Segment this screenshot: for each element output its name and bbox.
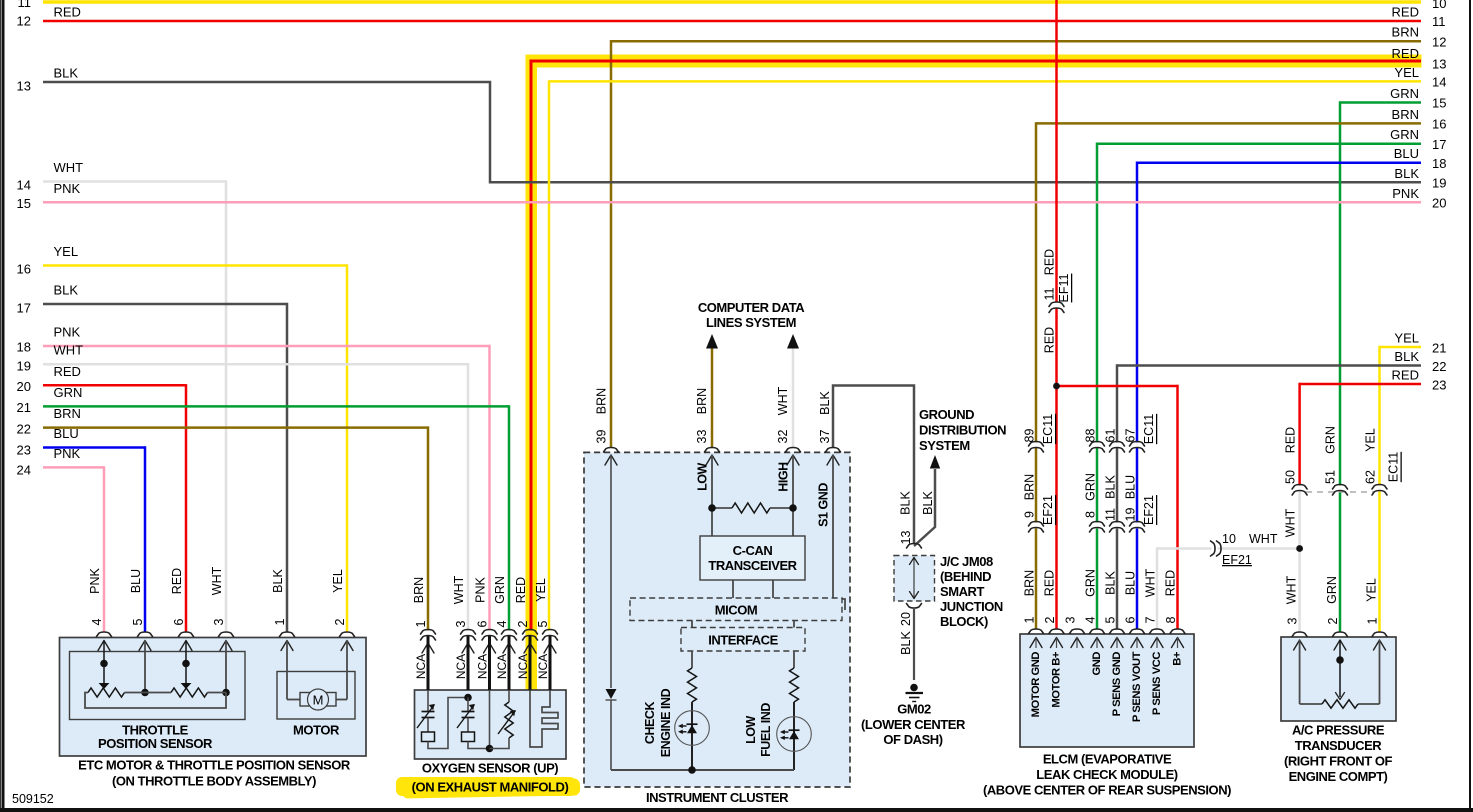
wire 16 BRN from right edge to ELCM pin 1 xyxy=(1036,107,1446,630)
wire WHT from ELCM pin 7 to A/C pin 3 node xyxy=(1157,547,1300,629)
svg-text:5: 5 xyxy=(1104,616,1118,623)
svg-text:NCA: NCA xyxy=(536,654,550,679)
svg-text:BRN: BRN xyxy=(1023,570,1037,596)
svg-text:PNK: PNK xyxy=(1392,186,1419,201)
throttle box pin 4 (PNK) connector xyxy=(88,567,112,650)
svg-text:16: 16 xyxy=(1432,117,1446,132)
svg-text:PNK: PNK xyxy=(54,325,81,340)
junction dot WHT net xyxy=(1296,545,1303,552)
svg-text:GND: GND xyxy=(1091,652,1103,676)
svg-text:LOW: LOW xyxy=(744,715,758,743)
svg-text:67: 67 xyxy=(1124,429,1138,443)
svg-text:22: 22 xyxy=(17,422,31,437)
A/C connector row EC11 (pins 50,51,62) xyxy=(1284,426,1401,495)
check engine indicator branch: resistor xyxy=(688,651,697,770)
label LOW FUEL IND xyxy=(744,703,773,757)
svg-text:61: 61 xyxy=(1104,429,1118,443)
wire 22 BLK from right edge to ELCM pin 5 xyxy=(1117,349,1446,630)
svg-text:RED: RED xyxy=(54,364,81,379)
wire: cluster CAN HIGH line pin 32 xyxy=(777,455,794,536)
svg-text:1: 1 xyxy=(414,620,428,627)
svg-text:GRN: GRN xyxy=(1390,127,1419,142)
svg-text:6: 6 xyxy=(476,620,490,627)
label THROTTLE POSITION SENSOR xyxy=(98,723,213,752)
svg-text:BLU: BLU xyxy=(1124,475,1138,499)
throttle box pin 2 (YEL) connector xyxy=(331,569,355,650)
svg-text:OXYGEN SENSOR (UP): OXYGEN SENSOR (UP) xyxy=(422,761,558,776)
low fuel indicator LED xyxy=(777,717,812,752)
page border right xyxy=(1469,0,1471,812)
svg-text:88: 88 xyxy=(1084,429,1098,443)
svg-text:ENGINE IND: ENGINE IND xyxy=(659,688,673,757)
svg-text:BLK: BLK xyxy=(921,491,935,515)
svg-text:BLK: BLK xyxy=(1394,349,1419,364)
wire 17 GRN from right edge to ELCM pin 4 xyxy=(1097,127,1446,629)
svg-text:EC11: EC11 xyxy=(1142,414,1156,444)
svg-text:EF11: EF11 xyxy=(1057,273,1071,302)
wire RED vertical x=1056 (ELCM MOTOR B+ net, from top of page) xyxy=(1057,0,1178,630)
svg-text:WHT: WHT xyxy=(1285,575,1299,604)
svg-text:BLK: BLK xyxy=(1104,571,1118,595)
svg-text:24: 24 xyxy=(17,463,31,478)
motor wires xyxy=(287,641,347,700)
cluster pin 39 connector xyxy=(604,448,619,466)
throttle position sensor inner box xyxy=(70,652,246,720)
svg-text:RED: RED xyxy=(1164,570,1178,596)
svg-text:2: 2 xyxy=(1043,616,1057,623)
svg-text:LOW: LOW xyxy=(696,462,710,490)
svg-text:BLK: BLK xyxy=(1394,166,1419,181)
svg-text:4: 4 xyxy=(1084,616,1098,623)
svg-text:15: 15 xyxy=(17,196,31,211)
svg-text:23: 23 xyxy=(17,443,31,458)
TPS wiper 2 (pin 6) xyxy=(181,641,192,690)
ELCM mid wire labels BRN GRN BLK BLU xyxy=(1023,473,1138,501)
svg-text:ETC MOTOR & THROTTLE POSITION: ETC MOTOR & THROTTLE POSITION SENSOR xyxy=(78,758,351,773)
label OXYGEN SENSOR (UP) (ON EXHAUST MANIFOLD) xyxy=(412,761,569,795)
wire BLK branch to ground distribution system arrow xyxy=(899,455,941,546)
svg-text:TRANSDUCER: TRANSDUCER xyxy=(1295,738,1383,753)
svg-text:GROUND: GROUND xyxy=(919,407,974,422)
svg-text:3: 3 xyxy=(212,618,226,625)
svg-text:RED: RED xyxy=(1392,368,1419,383)
svg-text:LEAK CHECK MODULE): LEAK CHECK MODULE) xyxy=(1036,767,1178,782)
svg-text:EC11: EC11 xyxy=(1387,452,1401,482)
svg-text:LINES SYSTEM: LINES SYSTEM xyxy=(706,315,796,330)
wire 13/19 BLK: left 13, over and down to right 19 xyxy=(17,66,1447,191)
svg-text:DISTRIBUTION: DISTRIBUTION xyxy=(919,423,1006,438)
oxygen sensor pin 5 (YEL) inline connector + NCA lead xyxy=(534,578,558,690)
svg-text:RED: RED xyxy=(1392,5,1419,20)
svg-text:51: 51 xyxy=(1324,470,1338,484)
svg-text:BRN: BRN xyxy=(1392,25,1419,40)
svg-text:YEL: YEL xyxy=(534,578,548,602)
svg-text:WHT: WHT xyxy=(210,566,224,595)
connector EF11 pin 11 on RED wire xyxy=(1043,249,1072,353)
svg-text:BLU: BLU xyxy=(54,426,79,441)
svg-text:GRN: GRN xyxy=(1084,569,1098,597)
svg-text:J/C JM08: J/C JM08 xyxy=(940,554,993,569)
svg-text:8: 8 xyxy=(1164,616,1178,623)
oxygen heater element (pins 2,5) xyxy=(530,690,558,747)
svg-text:14: 14 xyxy=(17,178,31,193)
svg-text:2: 2 xyxy=(1326,617,1340,624)
wires MICOM to INTERFACE xyxy=(692,621,794,628)
svg-text:S1 GND: S1 GND xyxy=(817,483,831,527)
TPS pin 3 wire xyxy=(222,641,230,697)
motor sub-box xyxy=(277,672,355,720)
svg-text:13: 13 xyxy=(17,79,31,94)
svg-text:YEL: YEL xyxy=(1394,65,1419,80)
oxygen pin 6 internal wire xyxy=(486,690,494,752)
svg-text:WHT: WHT xyxy=(776,386,790,415)
ground GM02 symbol xyxy=(906,684,924,702)
svg-text:1: 1 xyxy=(1023,616,1037,623)
svg-text:17: 17 xyxy=(1432,137,1446,152)
wire 14 YEL from right edge to oxygen sensor pin 5 xyxy=(549,65,1446,631)
svg-text:19: 19 xyxy=(1432,176,1446,191)
label CHECK ENGINE IND xyxy=(643,688,673,757)
instrument cluster dashed box xyxy=(584,452,850,787)
svg-text:POSITION SENSOR: POSITION SENSOR xyxy=(98,736,213,751)
svg-text:7: 7 xyxy=(1144,616,1158,623)
A/C pin 3 connector xyxy=(1285,575,1308,650)
TPS resistor 1 xyxy=(88,688,125,697)
svg-text:RED: RED xyxy=(1043,249,1057,275)
svg-text:GRN: GRN xyxy=(1325,576,1339,604)
connector EF21 pin 10 on WHT wire xyxy=(1211,532,1278,567)
svg-text:GM02: GM02 xyxy=(897,702,931,717)
svg-text:5: 5 xyxy=(536,620,550,627)
wire 15/20 PNK horizontal xyxy=(17,181,1447,211)
ETC motor & throttle position sensor outer box xyxy=(60,638,367,757)
TPS interconnect wires xyxy=(85,693,226,709)
svg-text:BLK: BLK xyxy=(818,391,832,415)
svg-text:P SENS VOUT: P SENS VOUT xyxy=(1131,651,1143,722)
label ELCM (EVAPORATIVE LEAK CHECK MODULE) (ABOVE CENTER OF REAR SUSPENSION) xyxy=(983,752,1231,798)
ELCM pin 8 connector xyxy=(1164,616,1185,665)
label: COMPUTER DATA LINES SYSTEM xyxy=(698,300,805,330)
svg-text:ENGINE COMPT): ENGINE COMPT) xyxy=(1289,769,1388,784)
wire 13 RED (highlighted) from right edge to oxygen sensor pin 2 xyxy=(531,46,1446,631)
wire 16 YEL from left edge down to throttle sensor pin 2 xyxy=(17,244,347,632)
svg-text:BLK: BLK xyxy=(899,631,913,655)
wire: S1 GND internal line pin 37 xyxy=(817,455,846,610)
svg-text:RED: RED xyxy=(514,577,528,603)
svg-text:YEL: YEL xyxy=(1364,428,1378,452)
svg-text:YEL: YEL xyxy=(1394,331,1419,346)
INTERFACE dashed box xyxy=(681,628,805,652)
J/C JM08 pin 20 connector xyxy=(899,604,922,655)
label A/C PRESSURE TRANSDUCER (RIGHT FRONT OF ENGINE COMPT) xyxy=(1284,723,1393,785)
A/C pin 2 connector xyxy=(1325,576,1348,650)
junction dot RED net at ELCM xyxy=(1053,383,1060,390)
svg-text:MOTOR: MOTOR xyxy=(293,723,340,738)
svg-text:13: 13 xyxy=(1432,57,1446,72)
ELCM pin 3 connector xyxy=(1064,616,1085,648)
TPS pin 5 wire to center tap xyxy=(141,641,149,697)
svg-text:BRN: BRN xyxy=(695,388,709,414)
J/C JM08 dashed box xyxy=(894,556,935,602)
svg-text:M: M xyxy=(313,693,324,708)
svg-text:BRN: BRN xyxy=(54,406,81,421)
junction dots on CAN lines xyxy=(708,504,797,512)
svg-text:4: 4 xyxy=(495,620,509,627)
svg-text:EF21: EF21 xyxy=(1142,495,1156,525)
label: GROUND DISTRIBUTION SYSTEM xyxy=(919,407,1006,453)
svg-text:YEL: YEL xyxy=(54,244,79,259)
ELCM pin 1 connector xyxy=(1023,616,1044,717)
svg-text:P SENS VCC: P SENS VCC xyxy=(1151,652,1163,715)
svg-text:10: 10 xyxy=(1432,0,1446,11)
svg-text:PNK: PNK xyxy=(474,576,488,602)
wire 18 PNK from left edge down to oxygen sensor pin 6 xyxy=(17,325,490,631)
J/C JM08 internal double-arrow wire xyxy=(910,557,919,599)
svg-text:(ON EXHAUST MANIFOLD): (ON EXHAUST MANIFOLD) xyxy=(412,780,569,795)
throttle box pin 1 (BLK) connector xyxy=(271,569,295,651)
svg-text:GRN: GRN xyxy=(1390,86,1419,101)
svg-text:YEL: YEL xyxy=(331,569,345,593)
svg-text:GRN: GRN xyxy=(1084,473,1098,501)
oxygen sensor pin 4 (GRN) inline connector + NCA lead xyxy=(493,576,517,690)
svg-text:21: 21 xyxy=(1432,341,1446,356)
svg-text:33: 33 xyxy=(695,430,709,444)
svg-text:EF21: EF21 xyxy=(1041,495,1055,525)
svg-text:16: 16 xyxy=(17,262,31,277)
svg-text:BLK: BLK xyxy=(1104,475,1118,499)
svg-text:22: 22 xyxy=(1432,359,1446,374)
wire BRN cluster pin 33 up to computer data lines arrow xyxy=(695,334,718,448)
svg-text:18: 18 xyxy=(17,340,31,355)
wire 12 BRN from right edge to instrument cluster pin 39 xyxy=(595,25,1447,448)
oxygen sensor pin 2 (RED) inline connector + NCA lead xyxy=(514,577,538,690)
svg-text:GRN: GRN xyxy=(493,576,507,604)
oxygen element 3 (pin 4 variable resistor) xyxy=(490,690,516,749)
svg-text:9: 9 xyxy=(1023,511,1037,518)
wire 23 BLU from left edge down to throttle sensor pin 5 xyxy=(17,426,145,632)
svg-text:BLU: BLU xyxy=(129,569,143,593)
svg-text:(ABOVE CENTER OF REAR SUSPENSI: (ABOVE CENTER OF REAR SUSPENSION) xyxy=(983,783,1231,798)
svg-text:RED: RED xyxy=(1043,327,1057,353)
J/C JM08 pin 13 connector xyxy=(899,531,922,548)
wire 14 WHT from left edge down to throttle sensor pin 3 xyxy=(17,160,226,632)
svg-text:RED: RED xyxy=(1392,46,1419,61)
label ETC MOTOR & THROTTLE POSITION SENSOR (ON THROTTLE BODY ASSEMBLY) xyxy=(78,758,351,789)
svg-text:3: 3 xyxy=(454,620,468,627)
svg-text:RED: RED xyxy=(54,5,81,20)
ELCM pin 7 connector xyxy=(1144,616,1165,715)
svg-text:19: 19 xyxy=(1124,508,1138,522)
junction dot on bus xyxy=(688,766,696,774)
svg-text:WHT: WHT xyxy=(54,343,84,358)
ELCM connector row EF21 (pins 9,8,11,19) xyxy=(1023,495,1157,532)
svg-text:CHECK: CHECK xyxy=(643,701,657,744)
wire 15 GRN from right edge to A/C pressure transducer pin 2 xyxy=(1340,86,1446,632)
svg-text:12: 12 xyxy=(17,14,31,29)
svg-text:(LOWER CENTER: (LOWER CENTER xyxy=(861,717,966,732)
A/C pressure transducer box xyxy=(1281,637,1396,721)
svg-text:89: 89 xyxy=(1023,429,1037,443)
svg-text:32: 32 xyxy=(776,430,790,444)
svg-text:JUNCTION: JUNCTION xyxy=(940,599,1003,614)
svg-text:BLK: BLK xyxy=(899,491,913,515)
svg-text:SMART: SMART xyxy=(940,584,984,599)
svg-text:(RIGHT FRONT OF: (RIGHT FRONT OF xyxy=(1284,754,1393,769)
svg-text:NCA: NCA xyxy=(414,654,428,679)
svg-text:EF21: EF21 xyxy=(1222,553,1252,567)
label: J/C JM08 (BEHIND SMART JUNCTION BLOCK) xyxy=(940,554,1003,629)
svg-text:RED: RED xyxy=(1043,570,1057,596)
svg-text:WHT: WHT xyxy=(1284,508,1298,537)
svg-text:1: 1 xyxy=(1366,617,1380,624)
svg-text:6: 6 xyxy=(1124,616,1138,623)
svg-text:NCA: NCA xyxy=(516,654,530,679)
wire 11/10 YEL (top horizontal) xyxy=(18,0,1447,11)
svg-text:8: 8 xyxy=(1084,511,1098,518)
svg-text:MOTOR GND: MOTOR GND xyxy=(1030,652,1042,718)
svg-text:COMPUTER DATA: COMPUTER DATA xyxy=(698,300,805,315)
throttle box pin 5 (BLU) connector xyxy=(129,569,153,651)
svg-text:YEL: YEL xyxy=(1365,578,1379,602)
svg-text:3: 3 xyxy=(1064,616,1078,623)
A/C pin 1 connector xyxy=(1365,578,1388,650)
wire 20 RED from left edge down to throttle sensor pin 6 xyxy=(17,364,186,632)
svg-text:10: 10 xyxy=(1222,532,1236,546)
page border bottom xyxy=(0,808,1473,812)
label: GM02 (LOWER CENTER OF DASH) xyxy=(861,702,966,748)
wire 23 RED from right edge to A/C connector 50, WHT below to pin 3 xyxy=(1300,368,1447,633)
cluster bottom bus wire xyxy=(611,769,794,771)
wire 17 BLK from left edge down to throttle sensor pin 1 xyxy=(17,283,287,632)
ELCM pin 4 connector xyxy=(1084,616,1105,675)
wire BLK 37: cluster pin 37 up, over to J/C JM08 pin 13 xyxy=(818,386,914,544)
wire 19 WHT from left edge down to oxygen sensor pin 3 xyxy=(17,343,468,631)
wire: cluster CAN LOW line pin 33 xyxy=(696,455,713,536)
svg-text:17: 17 xyxy=(17,301,31,316)
wire 21 YEL from right edge to A/C pressure transducer pin 1 xyxy=(1380,331,1447,633)
svg-text:NCA: NCA xyxy=(495,654,509,679)
svg-text:EC11: EC11 xyxy=(1041,414,1055,444)
svg-text:PNK: PNK xyxy=(54,181,81,196)
svg-text:37: 37 xyxy=(818,430,832,444)
svg-text:(BEHIND: (BEHIND xyxy=(940,569,991,584)
svg-text:SYSTEM: SYSTEM xyxy=(919,438,970,453)
motor M symbol xyxy=(300,689,336,710)
oxygen sensor pin 6 (PNK) inline connector + NCA lead xyxy=(474,576,498,690)
svg-text:11: 11 xyxy=(1104,508,1118,521)
wires C-CAN to MICOM xyxy=(733,580,773,598)
cluster pin 37 connector xyxy=(826,448,841,466)
TPS resistor 2 xyxy=(171,688,207,697)
page border left xyxy=(2,0,5,808)
svg-text:C-CAN: C-CAN xyxy=(733,543,773,558)
svg-text:BLK: BLK xyxy=(54,66,79,81)
svg-text:20: 20 xyxy=(1432,196,1446,211)
svg-text:BLK: BLK xyxy=(271,569,285,593)
svg-text:BRN: BRN xyxy=(595,388,609,414)
svg-text:BLU: BLU xyxy=(1124,571,1138,595)
svg-text:BRN: BRN xyxy=(1392,107,1419,122)
svg-text:NCA: NCA xyxy=(454,654,468,679)
oxygen element 1 (pin 1 variable sensor cell) xyxy=(417,690,468,749)
TPS wiper 1 (pin 4) xyxy=(99,641,110,690)
svg-text:GRN: GRN xyxy=(1324,426,1338,454)
svg-text:12: 12 xyxy=(1432,35,1446,50)
svg-text:TRANSCEIVER: TRANSCEIVER xyxy=(708,558,797,573)
svg-text:B+: B+ xyxy=(1172,651,1184,666)
svg-text:PNK: PNK xyxy=(54,446,81,461)
throttle box pin 6 (RED) connector xyxy=(170,568,194,651)
svg-text:BRN: BRN xyxy=(412,577,426,603)
check engine indicator LED xyxy=(675,711,710,746)
svg-text:NCA: NCA xyxy=(476,654,490,679)
svg-text:4: 4 xyxy=(90,618,104,625)
svg-text:HIGH: HIGH xyxy=(777,462,791,492)
resistor between CAN LOW and HIGH xyxy=(712,503,793,513)
svg-text:BLU: BLU xyxy=(1394,146,1419,161)
svg-text:2: 2 xyxy=(516,620,530,627)
wire 22 BRN from left edge down to oxygen sensor pin 1 xyxy=(17,406,428,630)
svg-text:39: 39 xyxy=(595,430,609,444)
svg-text:A/C PRESSURE: A/C PRESSURE xyxy=(1292,723,1385,738)
svg-text:11: 11 xyxy=(1432,14,1446,29)
svg-text:2: 2 xyxy=(333,618,347,625)
wire BLK 20 from J/C JM08 to ground GM02 xyxy=(913,608,915,680)
highlight marker under (ON EXHAUST MANIFOLD) caption xyxy=(396,777,580,799)
svg-text:PNK: PNK xyxy=(88,567,102,593)
svg-text:13: 13 xyxy=(899,531,913,545)
oxygen sensor box xyxy=(415,690,567,759)
svg-text:MOTOR B+: MOTOR B+ xyxy=(1051,651,1063,707)
ELCM lower wire labels xyxy=(1023,568,1178,597)
svg-text:MICOM: MICOM xyxy=(715,603,758,618)
svg-text:RED: RED xyxy=(1284,427,1298,453)
wire 18 BLU from right edge to ELCM pin 6 xyxy=(1137,146,1446,629)
svg-text:WHT: WHT xyxy=(1144,568,1158,597)
svg-text:BRN: BRN xyxy=(1023,474,1037,500)
svg-text:5: 5 xyxy=(131,618,145,625)
ELCM pin 5 connector xyxy=(1104,616,1125,716)
svg-text:50: 50 xyxy=(1284,470,1298,484)
oxygen sensor pin 1 (BRN) inline connector + NCA lead xyxy=(412,577,436,690)
wire WHT cluster pin 32 up to computer data lines arrow xyxy=(776,334,799,448)
svg-text:GRN: GRN xyxy=(54,385,83,400)
svg-text:6: 6 xyxy=(172,618,186,625)
svg-text:ELCM (EVAPORATIVE: ELCM (EVAPORATIVE xyxy=(1043,752,1172,767)
svg-text:P SENS GND: P SENS GND xyxy=(1111,652,1123,717)
svg-text:3: 3 xyxy=(1286,617,1300,624)
wire: cluster pin 39 internal line with diode to bottom bus xyxy=(606,455,617,770)
svg-text:21: 21 xyxy=(17,400,31,415)
svg-text:WHT: WHT xyxy=(452,575,466,604)
highlight marker on wire 13 (RED to oxygen sensor pin 2) xyxy=(526,55,1422,690)
svg-text:INSTRUMENT CLUSTER: INSTRUMENT CLUSTER xyxy=(646,790,789,805)
svg-text:23: 23 xyxy=(1432,378,1446,393)
low fuel indicator branch: resistor xyxy=(790,651,799,770)
svg-text:WHT: WHT xyxy=(1249,532,1278,546)
ELCM box xyxy=(1020,634,1194,747)
wire 21 GRN from left edge down to oxygen sensor pin 4 xyxy=(17,385,509,631)
svg-text:18: 18 xyxy=(1432,156,1446,171)
C-CAN transceiver box xyxy=(700,536,805,580)
ELCM connector row EC11 (pins 89,88,61,67) xyxy=(1023,414,1157,452)
svg-text:RED: RED xyxy=(170,568,184,594)
oxygen element 2 (pin 3 variable sensor cell) xyxy=(457,694,490,749)
svg-text:BLOCK): BLOCK) xyxy=(940,614,988,629)
svg-text:14: 14 xyxy=(1432,75,1446,90)
cluster pin 32 connector xyxy=(786,448,801,466)
svg-text:WHT: WHT xyxy=(54,160,84,175)
